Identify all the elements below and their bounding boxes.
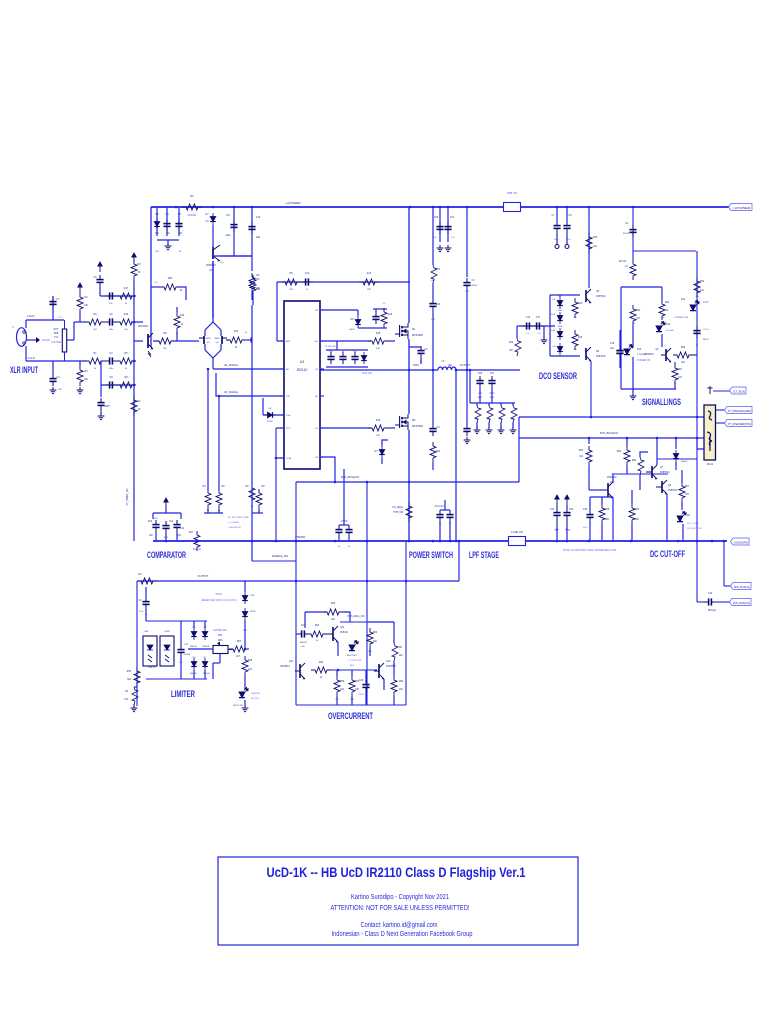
- wire r66b dn: [631, 524, 633, 541]
- svg-text:R62: R62: [319, 662, 324, 664]
- svg-text:DC CUT-OFF: DC CUT-OFF: [650, 549, 685, 559]
- wire c29 up: [556, 207, 558, 221]
- resistor R27s: [430, 442, 436, 462]
- wire zchain low: [244, 676, 246, 687]
- resistor R37 sig: [630, 260, 636, 280]
- svg-text:(CT_BUS): (CT_BUS): [733, 390, 745, 393]
- svg-text:R60: R60: [331, 603, 336, 605]
- svg-text:LM6115A: LM6115A: [138, 325, 148, 328]
- pin VB right stub: [320, 309, 324, 311]
- capacitor C37 dc: [563, 508, 570, 520]
- wire dco out drop: [590, 361, 592, 417]
- svg-text:2N5401C: 2N5401C: [596, 356, 606, 358]
- wire pos tap link a: [697, 601, 705, 603]
- wire r65 dn: [601, 524, 603, 541]
- wire c23p tail: [338, 537, 340, 541]
- capacitor C41 oc: [297, 630, 309, 637]
- svg-text:R67: R67: [237, 641, 242, 643]
- pin VCC left stub: [280, 427, 284, 429]
- wire spk mid link: [716, 409, 728, 411]
- capacitor C30 dco: [563, 221, 570, 233]
- capacitor C22: [301, 278, 313, 285]
- svg-text:C17: C17: [536, 317, 541, 319]
- wire D9 top: [357, 310, 359, 316]
- wire comb bar up: [469, 370, 471, 403]
- wire comparator rail: [133, 280, 135, 541]
- wire L3 out: [456, 369, 520, 371]
- wire oc far post: [405, 541, 407, 705]
- wire boot pair top: [373, 308, 387, 310]
- wire c12 drop: [155, 532, 157, 541]
- wire c21 drop: [447, 207, 449, 242]
- svg-text:C19: C19: [610, 343, 615, 345]
- wire mid bus (-)BUS: [153, 540, 727, 542]
- wire d20 dn: [204, 670, 206, 679]
- pin NC right stub: [320, 395, 324, 397]
- wire Q1 to R9: [153, 340, 159, 342]
- connector J1 pins: [23, 331, 25, 333]
- wire dco left post: [549, 295, 551, 356]
- resistor R13: [226, 337, 246, 343]
- wire q14 em: [383, 679, 385, 690]
- wire bias row2: [100, 295, 134, 297]
- wire d19 dn: [193, 670, 195, 679]
- wire r45 up: [681, 470, 683, 482]
- wire comb drop 2: [500, 403, 502, 406]
- capacitor C38 bus: [704, 598, 716, 605]
- svg-text:HGND: HGND: [42, 338, 50, 342]
- led LED6 ocp: [349, 641, 358, 651]
- wire r58 dn: [393, 696, 395, 705]
- resistor R58 oc: [391, 676, 397, 696]
- wire D7 to Q3: [212, 225, 214, 247]
- wire COM stub: [276, 457, 284, 459]
- svg-text:NC: NC: [315, 396, 319, 398]
- svg-text:Q12: Q12: [386, 661, 391, 663]
- resistor R48 lim: [242, 656, 248, 676]
- resistor R23: [205, 489, 211, 509]
- svg-text:OUTPUT: OUTPUT: [198, 574, 209, 578]
- svg-text:DCO SENSOR: DCO SENSOR: [539, 371, 577, 381]
- capacitor C6 100n: [175, 219, 182, 231]
- wire c39 dn: [145, 609, 147, 621]
- wire q8 em bar: [590, 496, 613, 498]
- diode D17 lim: [191, 628, 197, 640]
- ground (R4): [77, 387, 84, 394]
- wire c23 tail: [432, 311, 434, 370]
- ground (comb 0): [474, 427, 481, 434]
- resistor R28 sense: [406, 502, 412, 522]
- wire bcap top bar: [326, 349, 368, 351]
- svg-text:100u: 100u: [225, 235, 231, 237]
- wire enable riser: [295, 482, 297, 561]
- wire spk pos link: [716, 422, 728, 424]
- transistor Q9 2N5551C (dc): [656, 480, 667, 494]
- svg-text:R20: R20: [578, 303, 583, 305]
- svg-text:PT_SPEAKER(POS): PT_SPEAKER(POS): [728, 423, 751, 426]
- svg-text:2N5551C: 2N5551C: [280, 666, 290, 668]
- resistor R52 oc: [307, 631, 327, 637]
- wire hot path: [26, 319, 64, 321]
- resistor R38 sig: [630, 305, 636, 325]
- svg-text:CTVRWC 12B: CTVRWC 12B: [674, 317, 689, 319]
- ground (C20): [437, 245, 444, 252]
- svg-text:R26: R26: [578, 337, 583, 339]
- svg-text:2 HOT: 2 HOT: [27, 314, 35, 318]
- wire oc bottom: [296, 704, 406, 706]
- svg-text:= LONGER: = LONGER: [228, 522, 240, 524]
- power arrow (R3): [78, 283, 82, 293]
- wire d24 drop: [675, 438, 677, 449]
- wire c29 dn: [556, 233, 558, 244]
- wire C3 up: [52, 361, 54, 374]
- wire led2 dn: [661, 334, 663, 347]
- wire enable_sw: [252, 560, 296, 562]
- svg-text:D13: D13: [637, 349, 642, 351]
- resistor R50 lim: [132, 687, 138, 705]
- wire sig box bottom: [621, 388, 676, 390]
- wire sig rail drop: [632, 207, 634, 260]
- svg-text:R16: R16: [388, 313, 393, 316]
- svg-text:2N5607C: 2N5607C: [206, 264, 216, 267]
- resistor R49 lim: [134, 667, 140, 687]
- net flag POS_BUS bottom: [730, 599, 752, 606]
- resistor R56 oc: [349, 676, 355, 696]
- svg-text:HA_SIGNAL: HA_SIGNAL: [224, 363, 239, 367]
- wire pair1 l tail: [207, 509, 209, 513]
- svg-text:R60: R60: [700, 281, 705, 283]
- transistor Q7 2N5401C (dco lo): [586, 347, 591, 361]
- capacitor C25z: [463, 278, 470, 290]
- wire R19 join: [176, 332, 178, 341]
- capacitor C28f: [488, 376, 495, 388]
- fuse F2 bus: [509, 537, 526, 546]
- transistor Q8 2N5551C (dc): [602, 482, 613, 498]
- wire comb tail 1: [488, 422, 490, 428]
- wire gnd stub: [167, 240, 169, 245]
- svg-text:10K: 10K: [256, 288, 261, 290]
- svg-text:10R: 10R: [487, 419, 491, 421]
- svg-text:C30: C30: [583, 509, 588, 511]
- wire sig 251 row: [633, 250, 696, 252]
- wire spk line upper: [519, 416, 704, 418]
- resistor R45 dc: [679, 482, 685, 502]
- svg-text:(+)POWER: (+)POWER: [285, 201, 301, 205]
- wire ct bus link: [713, 390, 731, 392]
- capacitor C21p: [436, 510, 443, 522]
- wire sig path A end: [131, 321, 143, 323]
- svg-text:R50: R50: [127, 671, 132, 673]
- wire wiper up: [73, 322, 75, 340]
- wire vr1 mid: [211, 648, 213, 650]
- power arrow (C5b): [98, 262, 102, 272]
- svg-text:R47: R47: [189, 531, 194, 534]
- capacitor C39 lim: [142, 597, 149, 609]
- capacitor C34 sig: [616, 346, 623, 358]
- led LED5 limiter active: [239, 688, 248, 698]
- potentiometer VR volume: [62, 329, 66, 352]
- svg-text:R64: R64: [315, 625, 320, 627]
- resistor R60 2k: [160, 284, 180, 290]
- svg-text:2N54: 2N54: [214, 338, 220, 340]
- wire r57 row link: [367, 621, 394, 623]
- svg-text:MKP: MKP: [478, 397, 483, 399]
- wire snub top: [432, 370, 434, 424]
- wire r45 dn: [681, 502, 683, 510]
- svg-text:IR2110: IR2110: [297, 368, 308, 372]
- connector J2 speaker (yellow): [704, 405, 716, 460]
- capacitor C33 dco out: [616, 346, 623, 358]
- svg-text:VOLUME: VOLUME: [51, 341, 62, 344]
- svg-text:C14: C14: [180, 528, 185, 530]
- wire c42 dn: [365, 692, 367, 705]
- svg-text:LIMITER: LIMITER: [251, 693, 260, 695]
- diode D23 sd zener: [264, 412, 276, 418]
- wire Q3 down to diff pair: [212, 261, 214, 318]
- power arrow (R20): [132, 253, 136, 263]
- svg-text:C7 C8: C7 C8: [341, 521, 348, 523]
- svg-text:POS_BUS(12V): POS_BUS(12V): [341, 475, 360, 479]
- svg-text:IRFP4668: IRFP4668: [412, 334, 423, 337]
- svg-text:LDR: LDR: [144, 631, 149, 633]
- wire to diff pair: [171, 340, 199, 342]
- terminal (C30): [565, 245, 569, 249]
- capacitor C14: [173, 520, 180, 532]
- svg-text:4u7NP: 4u7NP: [184, 654, 191, 656]
- svg-text:R33: R33: [509, 342, 514, 344]
- resistor R17: [116, 293, 136, 299]
- wire Q3 collector bar: [220, 255, 252, 257]
- svg-text:R67: R67: [685, 486, 690, 488]
- wire pair1 r tail: [218, 509, 220, 513]
- wire sig path B end: [131, 360, 136, 362]
- wire 2k feed a: [151, 286, 160, 288]
- wire c2122 hang: [444, 500, 446, 510]
- wire sig path A: [74, 321, 86, 323]
- resistor R18g: [368, 425, 388, 431]
- resistor R21 on rail: [131, 396, 137, 416]
- diode D2: [154, 218, 160, 230]
- wire lpf comb bar: [470, 402, 515, 404]
- svg-text:Indonesian - Class D Next Gene: Indonesian - Class D Next Generation Fac…: [332, 931, 473, 938]
- wire C5b down: [99, 287, 101, 296]
- ground (dco): [541, 337, 548, 344]
- svg-text:Kartino Surodipo - Copyright N: Kartino Surodipo - Copyright Nov 2021: [351, 894, 449, 901]
- svg-text:C23: C23: [436, 304, 441, 306]
- transistor Q6 2N5551C (dco hi): [586, 289, 591, 303]
- wire clip post: [696, 251, 698, 438]
- svg-text:C16: C16: [526, 317, 531, 319]
- wire c13 drop: [165, 533, 167, 541]
- wire cap branch C5: [166, 207, 168, 236]
- svg-text:Q11: Q11: [340, 627, 345, 629]
- svg-text:10R: 10R: [511, 419, 515, 421]
- wire pair1 right drop: [218, 396, 220, 490]
- svg-text:SD: SD: [286, 369, 289, 371]
- resistor R20: [131, 260, 137, 280]
- wire M1 source: [408, 339, 410, 370]
- svg-text:5k/B: 5k/B: [54, 333, 59, 335]
- ground (comb 2): [498, 427, 505, 434]
- wire limiter left post: [136, 581, 138, 706]
- capacitor C12: [152, 520, 159, 532]
- svg-text:LN_SIGNAL: LN_SIGNAL: [224, 390, 239, 394]
- wire c33 dn: [619, 358, 621, 368]
- wire d24 dn: [675, 462, 677, 470]
- transistor M1 IRFP4668 (upper): [395, 323, 408, 339]
- wire caps bottom join: [213, 255, 252, 257]
- svg-text:VR1: VR1: [218, 635, 223, 637]
- wire r51 bend: [343, 612, 350, 622]
- svg-text:PT_4558M_ON: PT_4558M_ON: [126, 488, 129, 505]
- resistor R12: [359, 279, 379, 285]
- net flag PT_SPEAKER MID: [725, 407, 753, 414]
- net flag MID_BUS: [731, 583, 752, 590]
- wire c42 up: [365, 670, 367, 680]
- svg-text:D12: D12: [681, 299, 686, 301]
- capacitor C17b: [327, 352, 334, 364]
- svg-text:PT_SPEAKER(1MID): PT_SPEAKER(1MID): [728, 410, 751, 413]
- svg-text:R20: R20: [436, 451, 441, 453]
- wire LO to gate: [320, 427, 371, 429]
- capacitor C40 lim: [177, 645, 184, 657]
- wire r55 up: [336, 670, 338, 676]
- ground (input decoupling): [165, 243, 172, 250]
- wire pair1 left drop: [207, 369, 209, 490]
- capacitor C21 rail: [444, 222, 451, 234]
- wire comb drop 3: [512, 403, 514, 406]
- svg-text:2N5551C: 2N5551C: [660, 472, 670, 474]
- transistor Q8 2N5551C (sig): [661, 348, 671, 362]
- diode D15 dco: [557, 343, 563, 355]
- capacitor C36 dc: [553, 508, 560, 520]
- svg-text:MUR: MUR: [350, 329, 355, 331]
- svg-text:RCA1: RCA1: [707, 463, 714, 466]
- capacitor C16s: [417, 346, 424, 358]
- wire VCC stub: [276, 427, 284, 429]
- svg-text:R13: R13: [367, 272, 372, 275]
- wire c2122 top: [440, 509, 450, 511]
- wire M2 source: [408, 430, 410, 541]
- capacitor C10: [248, 222, 255, 234]
- svg-text:FUSE ON: FUSE ON: [511, 530, 523, 534]
- diode D14 dco: [557, 328, 563, 340]
- wire q9 em dn: [666, 494, 668, 541]
- wire q12 em drop: [337, 642, 339, 656]
- svg-text:R5, R6: SWNG TIME: R5, R6: SWNG TIME: [228, 517, 249, 519]
- svg-text:C27: C27: [301, 625, 306, 627]
- svg-text:PROTECT ON: PROTECT ON: [687, 528, 702, 530]
- wire oc left post: [295, 561, 297, 705]
- wire sig gnd stub: [632, 389, 634, 394]
- resistor R16 boot: [381, 308, 387, 328]
- capacitor C29 dco: [553, 221, 560, 233]
- svg-text:Q11: Q11: [289, 661, 294, 663]
- ground (zobel): [464, 437, 471, 444]
- inductor L3: [438, 367, 456, 370]
- svg-text:Contact: kartino.id@gmail.com: Contact: kartino.id@gmail.com: [361, 922, 438, 929]
- wire cap C9 drop: [233, 207, 235, 256]
- power arrow (dc caps a): [555, 495, 559, 505]
- resistor R1: [85, 358, 105, 364]
- wire c37 up: [566, 505, 568, 509]
- svg-text:LIMITER SET: LIMITER SET: [213, 630, 228, 632]
- svg-text:SIGNAL: SIGNAL: [666, 329, 675, 332]
- capacitor C26z: [463, 424, 470, 436]
- svg-text:BA(-1)A: BA(-1)A: [193, 548, 202, 551]
- transistor pair Q4 Q5 2N5401 diamond: [199, 318, 227, 362]
- wire dco rail drop: [588, 207, 590, 288]
- wire r56 up: [351, 670, 353, 676]
- wire dco gnd stub: [543, 326, 545, 338]
- svg-text:NOTE: DC PROTECT SHALL BE BEFO: NOTE: DC PROTECT SHALL BE BEFORE FUSE: [563, 549, 616, 552]
- svg-text:R60: R60: [579, 450, 584, 452]
- svg-text:10K: 10K: [84, 379, 89, 381]
- svg-text:R71: R71: [436, 269, 441, 271]
- wire c40 up: [180, 621, 182, 645]
- capacitor C6b: [105, 292, 117, 299]
- wire comb tail 0: [476, 422, 478, 428]
- svg-text:10R: 10R: [475, 419, 479, 421]
- ground (limiter left): [131, 705, 138, 712]
- svg-text:BUS ON: BUS ON: [362, 372, 372, 375]
- wire r41 up: [674, 362, 676, 364]
- wire r44 dn: [639, 475, 641, 490]
- resistor R24: [216, 489, 222, 509]
- ground (C21): [445, 245, 452, 252]
- svg-text:D14: D14: [666, 324, 671, 326]
- svg-text:MKP: MKP: [490, 397, 495, 399]
- svg-text:1N4148: 1N4148: [202, 673, 210, 675]
- svg-text:SIGNALLINGS: SIGNALLINGS: [642, 397, 681, 407]
- resistor comb R31: [487, 405, 493, 423]
- wire HIN feed: [277, 340, 284, 342]
- connector J2 pin hooks: [707, 411, 712, 451]
- capacitor C9: [230, 220, 237, 232]
- svg-text:POT: POT: [54, 329, 59, 331]
- svg-text:MOC3021: MOC3021: [347, 655, 358, 657]
- wire R3 to path: [79, 313, 81, 322]
- svg-text:NSL32 RD: NSL32 RD: [233, 705, 243, 707]
- wire pos mag row: [340, 621, 367, 623]
- wire comb drop 1: [488, 403, 490, 406]
- resistor R54 oc: [311, 667, 331, 673]
- diode D10b: [361, 352, 367, 364]
- wire pair2 r tail: [258, 509, 260, 513]
- wire q8 em dn: [612, 497, 614, 541]
- wire pos bus lower: [296, 481, 519, 483]
- wire r71 tail: [432, 283, 434, 299]
- resistor R35 dco: [572, 298, 578, 318]
- svg-text:HO: HO: [315, 341, 319, 343]
- svg-text:C26: C26: [478, 373, 483, 375]
- resistor R71 divider: [431, 265, 437, 283]
- wire diamond to R13: [227, 339, 229, 341]
- capacitor C19b: [351, 352, 358, 364]
- svg-text:CLIP: CLIP: [703, 301, 709, 304]
- wire HA_SIGNAL: [213, 368, 284, 370]
- resistor R41 sig: [672, 364, 678, 384]
- transistor Q14 2N5551C (oc right): [374, 663, 384, 679]
- wire 2k feed b: [180, 287, 186, 300]
- diode D24 dc: [673, 450, 679, 462]
- terminal (C29): [555, 245, 559, 249]
- capacitor C20 rail: [436, 222, 443, 234]
- wire snub tail: [432, 462, 434, 470]
- led LED3 CLIP: [690, 301, 699, 311]
- wire r56 dn: [351, 696, 353, 705]
- diode D18 lim: [202, 628, 208, 640]
